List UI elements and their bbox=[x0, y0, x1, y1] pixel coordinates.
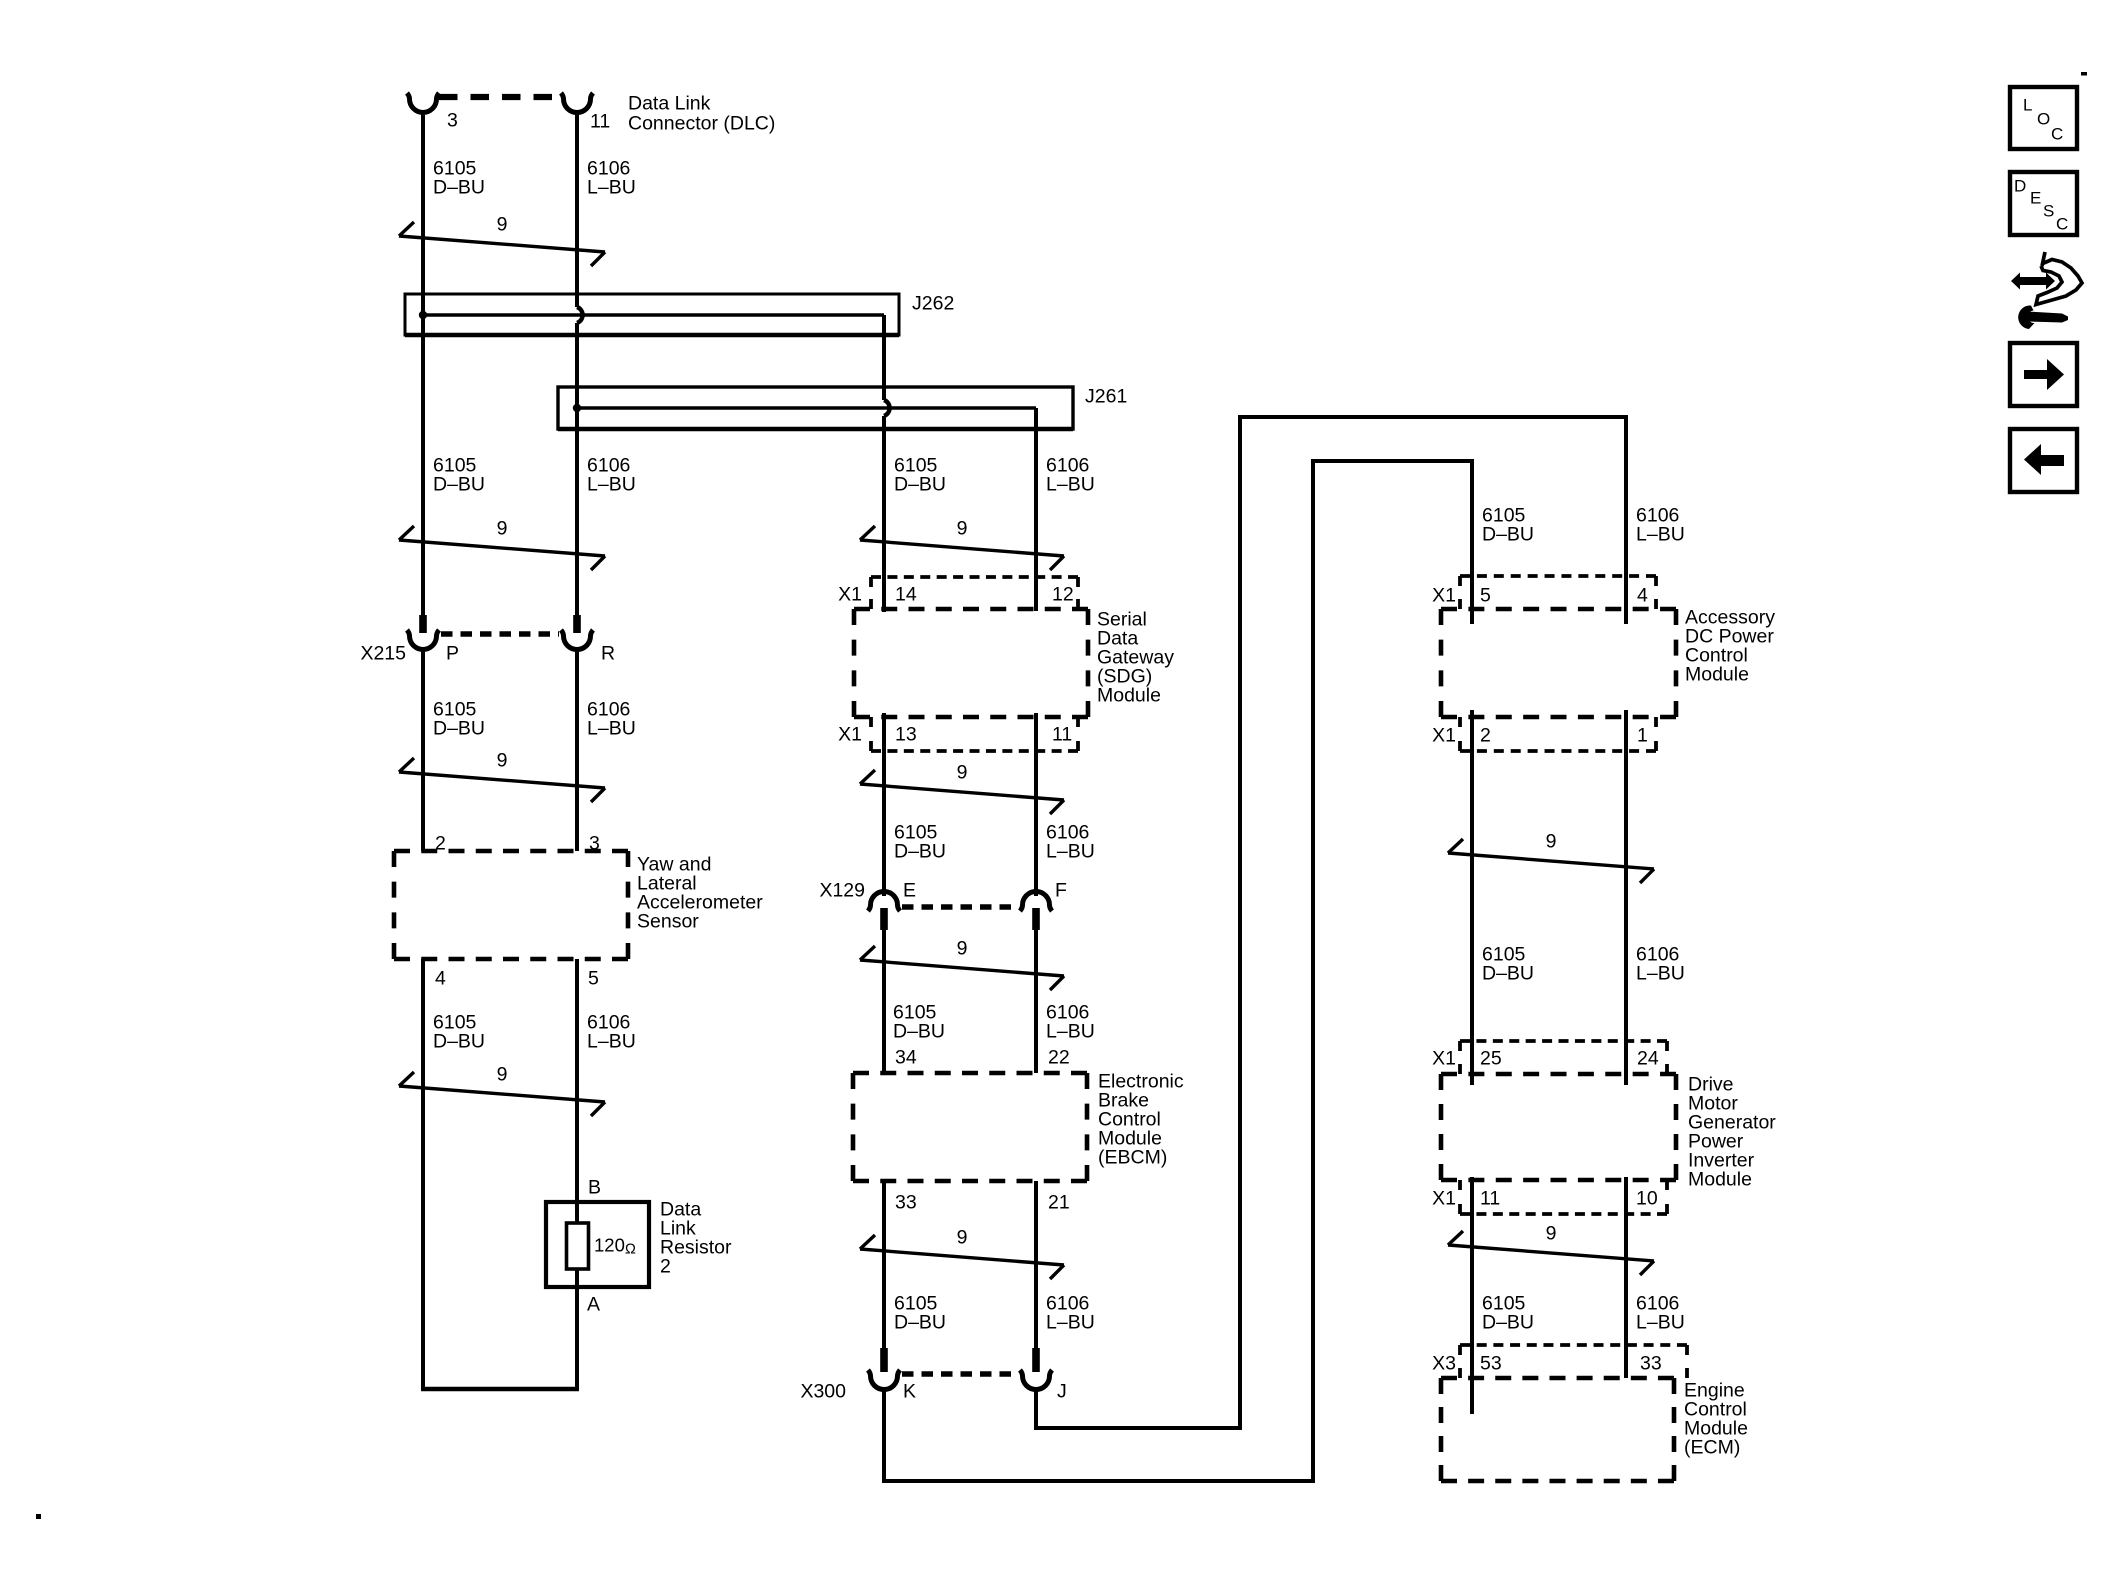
svg-text:24: 24 bbox=[1637, 1047, 1659, 1069]
svg-text:9: 9 bbox=[957, 1226, 968, 1248]
svg-text:B: B bbox=[588, 1176, 601, 1198]
twisted pair symbol (middle column 2) bbox=[860, 770, 1064, 814]
svg-text:9: 9 bbox=[497, 749, 508, 771]
svg-text:9: 9 bbox=[957, 937, 968, 959]
svg-text:9: 9 bbox=[497, 1063, 508, 1085]
net label 6105 D-BU (left, above X215) bbox=[433, 454, 485, 495]
svg-text:1: 1 bbox=[1637, 724, 1648, 746]
svg-text:Sensor: Sensor bbox=[637, 910, 699, 932]
svg-text:L: L bbox=[2023, 95, 2032, 114]
label Engine Control Module (ECM) bbox=[1684, 1379, 1748, 1458]
svg-text:4: 4 bbox=[1637, 584, 1648, 606]
svg-text:33: 33 bbox=[895, 1191, 917, 1213]
svg-text:Module: Module bbox=[1097, 684, 1161, 706]
svg-text:D: D bbox=[2014, 176, 2026, 195]
connector pin box X1 13/11 (SDG bottom) bbox=[871, 717, 1078, 751]
label Yaw and Lateral Accelerometer Sensor bbox=[637, 853, 763, 932]
svg-text:D–BU: D–BU bbox=[433, 176, 485, 198]
net label 6106 L-BU (middle, above SDG) bbox=[1046, 454, 1095, 495]
svg-text:D–BU: D–BU bbox=[894, 473, 946, 495]
connector X300 mating dashed line bbox=[902, 1371, 1018, 1376]
label Electronic Brake Control Module (EBCM) bbox=[1098, 1070, 1184, 1168]
splice pack J261 housing bbox=[558, 387, 1073, 429]
wire J261 internal bus 6106 to middle column bbox=[577, 406, 1036, 410]
connector X129 mating dashed line bbox=[902, 904, 1018, 909]
wire 6105 D-BU from DLC pin 3 to splice J262 bbox=[421, 110, 425, 315]
svg-text:E: E bbox=[903, 879, 916, 901]
wire 6105 D-BU yaw sensor pin 4 down to termination loop bbox=[421, 959, 425, 1389]
wire 6106 L-BU X215 to yaw sensor pin 3 bbox=[575, 648, 579, 851]
twisted pair symbol (middle column 3) bbox=[860, 946, 1064, 990]
net label 6105 D-BU (left, top) bbox=[433, 157, 485, 198]
svg-text:S: S bbox=[2043, 201, 2054, 220]
svg-text:A: A bbox=[587, 1293, 600, 1315]
wire termination loop horizontal 6105 to 6106 bbox=[421, 1387, 579, 1392]
wire 6106 L-BU from J261 to connector X215 bbox=[575, 408, 579, 616]
svg-text:9: 9 bbox=[957, 761, 968, 783]
svg-text:X215: X215 bbox=[360, 642, 406, 664]
wire hop of 6106 over J262 bus bbox=[577, 307, 583, 323]
wire 6106 L-BU DMGPIM pin 10 to ECM pin 33 bbox=[1624, 1177, 1628, 1378]
twisted pair symbol (middle column 4) bbox=[860, 1235, 1064, 1279]
net label 6105 D-BU (left, below X215) bbox=[433, 698, 485, 739]
svg-text:(EBCM): (EBCM) bbox=[1098, 1146, 1167, 1168]
wire 6106 from resistor pin A down bbox=[575, 1287, 579, 1389]
svg-text:Ω: Ω bbox=[625, 1241, 636, 1257]
icon shortcut arrow-wrench bbox=[2011, 252, 2082, 329]
svg-text:D–BU: D–BU bbox=[1482, 523, 1534, 545]
net label 6106 L-BU (left, top) bbox=[587, 157, 636, 198]
svg-text:13: 13 bbox=[895, 723, 917, 745]
module Engine Control Module (ECM) dashed box bbox=[1441, 1378, 1674, 1481]
wire 6105 D-BU DMGPIM pin 11 to ECM pin 53 bbox=[1470, 1177, 1474, 1414]
svg-text:11: 11 bbox=[590, 110, 610, 132]
svg-text:R: R bbox=[601, 642, 615, 664]
net label 6105 D-BU (right, above DMGPIM) bbox=[1482, 943, 1534, 984]
svg-text:9: 9 bbox=[1546, 1222, 1557, 1244]
resistor element R 120 ohm bbox=[567, 1202, 589, 1287]
svg-text:9: 9 bbox=[1546, 830, 1557, 852]
wire 6106 middle column vertical from J261 bbox=[1034, 408, 1038, 611]
svg-text:14: 14 bbox=[895, 583, 917, 605]
wire 6106 route X300-J to right column (down, right, up, right) bbox=[1036, 417, 1626, 1428]
twisted pair symbol (right column 2) bbox=[1448, 1231, 1654, 1275]
net label 6105 D-BU (middle, above EBCM) bbox=[893, 1001, 945, 1042]
svg-text:22: 22 bbox=[1048, 1046, 1070, 1068]
svg-text:D–BU: D–BU bbox=[1482, 1311, 1534, 1333]
svg-text:L–BU: L–BU bbox=[1046, 840, 1095, 862]
svg-text:Data Link: Data Link bbox=[628, 92, 711, 114]
svg-text:L–BU: L–BU bbox=[587, 717, 636, 739]
net label 6105 D-BU (left, below yaw sensor) bbox=[433, 1011, 485, 1052]
svg-text:9: 9 bbox=[957, 517, 968, 539]
svg-text:D–BU: D–BU bbox=[433, 1030, 485, 1052]
wire 6106 L-BU SDG pin 11 to connector X129 pin F bbox=[1034, 713, 1038, 896]
svg-text:L–BU: L–BU bbox=[587, 176, 636, 198]
wire 6105 middle column vertical from J262 (with hop over J261 bus) bbox=[884, 315, 890, 612]
svg-text:L–BU: L–BU bbox=[587, 473, 636, 495]
twisted pair symbol (left column 1) bbox=[399, 222, 605, 266]
connector DLC cavity 3 (cup) bbox=[407, 93, 439, 112]
wire 6106 L-BU J262 area to junction J261 bbox=[575, 323, 579, 408]
module Drive Motor Generator Power Inverter Module dashed box bbox=[1441, 1074, 1676, 1180]
svg-text:D–BU: D–BU bbox=[433, 473, 485, 495]
wire 6105 D-BU X129 to EBCM pin 34 bbox=[882, 930, 886, 1073]
icon LOC button bbox=[2010, 87, 2077, 149]
svg-text:C: C bbox=[2056, 214, 2068, 233]
connector pin box X1 2/1 (ADCPM bottom) bbox=[1460, 717, 1656, 751]
label Serial Data Gateway (SDG) Module bbox=[1097, 608, 1174, 706]
net label 6105 D-BU (right, above ADCPM) bbox=[1482, 504, 1534, 545]
wire 6105 D-BU EBCM pin 33 to connector X300 pin K bbox=[882, 1181, 886, 1348]
wire 6106 L-BU from DLC pin 11 (upper segment) bbox=[575, 110, 579, 307]
connector pin box X3 53/33 (ECM top) bbox=[1460, 1345, 1687, 1378]
svg-text:L–BU: L–BU bbox=[1046, 1311, 1095, 1333]
svg-text:120: 120 bbox=[594, 1234, 625, 1255]
wire 6105 D-BU SDG pin 13 to connector X129 pin E bbox=[882, 713, 886, 896]
module Electronic Brake Control Module (EBCM) dashed box bbox=[853, 1073, 1087, 1181]
svg-text:X129: X129 bbox=[819, 879, 865, 901]
svg-text:X3: X3 bbox=[1432, 1352, 1456, 1374]
svg-text:J261: J261 bbox=[1085, 385, 1127, 407]
svg-text:Connector (DLC): Connector (DLC) bbox=[628, 112, 775, 134]
module Accessory DC Power Control Module dashed box bbox=[1441, 609, 1676, 717]
net label 6106 L-BU (right, above DMGPIM) bbox=[1636, 943, 1685, 984]
net label 6105 D-BU (middle, above X129) bbox=[894, 821, 946, 862]
label Drive Motor Generator Power Inverter Module bbox=[1688, 1073, 1776, 1190]
wire 6105 D-BU X215 to yaw sensor pin 2 bbox=[421, 648, 425, 851]
net label 6106 L-BU (left, below yaw sensor) bbox=[587, 1011, 636, 1052]
icon DESC button bbox=[2010, 172, 2077, 235]
svg-text:Module: Module bbox=[1688, 1168, 1752, 1190]
svg-text:2: 2 bbox=[1480, 724, 1491, 746]
svg-text:X1: X1 bbox=[1432, 1187, 1456, 1209]
svg-text:X1: X1 bbox=[1432, 724, 1456, 746]
svg-text:3: 3 bbox=[447, 109, 458, 131]
svg-text:L–BU: L–BU bbox=[1636, 523, 1685, 545]
svg-text:D–BU: D–BU bbox=[433, 717, 485, 739]
wire 6106 L-BU EBCM pin 21 to connector X300 pin J bbox=[1034, 1181, 1038, 1348]
svg-text:9: 9 bbox=[497, 517, 508, 539]
svg-text:O: O bbox=[2037, 109, 2050, 128]
svg-text:J262: J262 bbox=[912, 292, 954, 314]
connector pin box X1 25/24 (DMGPIM top) bbox=[1460, 1041, 1667, 1074]
wire 6105 D-BU from J262 to connector X215 bbox=[421, 315, 425, 616]
twisted pair symbol (left column 3) bbox=[399, 758, 605, 802]
net label 6106 L-BU (left, above X215) bbox=[587, 454, 636, 495]
module Yaw and Lateral Accelerometer Sensor (dashed box) bbox=[394, 851, 628, 959]
svg-text:X1: X1 bbox=[838, 583, 862, 605]
svg-text:P: P bbox=[446, 642, 459, 664]
wire 6105 D-BU ADCPM pin 2 to DMGPIM pin 25 bbox=[1470, 710, 1474, 1085]
wire 6105 route X300-K to right column (down, right, up, right) bbox=[884, 461, 1472, 1481]
label Accessory DC Power Control Module bbox=[1685, 606, 1775, 685]
svg-text:5: 5 bbox=[1480, 584, 1491, 606]
svg-text:K: K bbox=[903, 1380, 916, 1402]
svg-text:X300: X300 bbox=[800, 1380, 846, 1402]
connector X215 mating dashed line bbox=[441, 631, 559, 636]
page artifact dot bottom left bbox=[36, 1514, 41, 1519]
net label 6105 D-BU (middle, above SDG) bbox=[894, 454, 946, 495]
wire J262 internal bus 6105 to middle column bbox=[423, 313, 884, 317]
net label 6106 L-BU (middle, above X300) bbox=[1046, 1292, 1095, 1333]
twisted pair symbol (left column 2) bbox=[399, 526, 605, 570]
connector X129 cavity F (cup and pin) bbox=[1020, 892, 1052, 930]
wire 6106 L-BU X129 to EBCM pin 22 bbox=[1034, 930, 1038, 1073]
net label 6106 L-BU (left, below X215) bbox=[587, 698, 636, 739]
svg-text:F: F bbox=[1055, 879, 1067, 901]
data link resistor housing box bbox=[546, 1202, 649, 1287]
svg-text:34: 34 bbox=[895, 1046, 917, 1068]
svg-text:11: 11 bbox=[1480, 1187, 1500, 1209]
svg-text:L–BU: L–BU bbox=[1046, 473, 1095, 495]
svg-text:53: 53 bbox=[1480, 1352, 1502, 1374]
connector DLC cavity 11 (cup) bbox=[561, 93, 593, 113]
connector X300 cavity J (pin and cup) bbox=[1020, 1348, 1052, 1390]
net label 6105 D-BU (middle, above X300) bbox=[894, 1292, 946, 1333]
svg-text:21: 21 bbox=[1048, 1191, 1070, 1213]
junction dot on 6105 at J262 bbox=[419, 311, 427, 319]
wire 6106 L-BU yaw sensor pin 5 to data link resistor pin B bbox=[575, 959, 579, 1202]
svg-text:4: 4 bbox=[435, 967, 446, 989]
label Data Link Connector (DLC) bbox=[628, 92, 775, 134]
svg-text:25: 25 bbox=[1480, 1047, 1502, 1069]
svg-text:12: 12 bbox=[1052, 583, 1074, 605]
connector X129 cavity E (cup and pin) bbox=[868, 892, 900, 930]
svg-text:9: 9 bbox=[497, 213, 508, 235]
svg-text:2: 2 bbox=[660, 1255, 671, 1277]
svg-text:X1: X1 bbox=[1432, 584, 1456, 606]
svg-text:L–BU: L–BU bbox=[587, 1030, 636, 1052]
svg-text:L–BU: L–BU bbox=[1046, 1020, 1095, 1042]
svg-text:D–BU: D–BU bbox=[893, 1020, 945, 1042]
svg-text:X1: X1 bbox=[1432, 1047, 1456, 1069]
net label 6106 L-BU (right, above ADCPM) bbox=[1636, 504, 1685, 545]
label Data Link Resistor 2 bbox=[660, 1198, 732, 1277]
svg-text:33: 33 bbox=[1640, 1352, 1662, 1374]
svg-text:(ECM): (ECM) bbox=[1684, 1436, 1740, 1458]
connector X215 cavity R (pin and cup) bbox=[561, 615, 593, 650]
connector X300 cavity K (pin and cup) bbox=[868, 1348, 900, 1390]
net label 6106 L-BU (middle, above EBCM) bbox=[1046, 1001, 1095, 1042]
junction dot on 6106 at J261 bbox=[573, 404, 581, 412]
svg-text:L–BU: L–BU bbox=[1636, 1311, 1685, 1333]
page artifact dot top right bbox=[2081, 72, 2087, 76]
connector pin box X1 14/12 (SDG top) bbox=[871, 577, 1078, 609]
svg-text:D–BU: D–BU bbox=[1482, 962, 1534, 984]
twisted pair symbol (left column 4) bbox=[399, 1072, 605, 1116]
svg-text:D–BU: D–BU bbox=[894, 840, 946, 862]
net label 6105 D-BU (right, above ECM) bbox=[1482, 1292, 1534, 1333]
icon previous arrow button bbox=[2010, 429, 2077, 492]
icon next arrow button bbox=[2010, 343, 2077, 406]
net label 6106 L-BU (right, above ECM) bbox=[1636, 1292, 1685, 1333]
splice pack J262 housing bbox=[405, 294, 899, 335]
module Serial Data Gateway (SDG) dashed box bbox=[854, 609, 1088, 717]
connector pin box X1 11/10 (DMGPIM bottom) bbox=[1460, 1180, 1667, 1214]
connector X215 cavity P (pin and cup) bbox=[407, 615, 439, 649]
svg-text:E: E bbox=[2030, 188, 2041, 207]
svg-text:X1: X1 bbox=[838, 723, 862, 745]
svg-text:D–BU: D–BU bbox=[894, 1311, 946, 1333]
svg-text:11: 11 bbox=[1052, 723, 1072, 745]
svg-text:5: 5 bbox=[588, 967, 599, 989]
svg-text:10: 10 bbox=[1636, 1187, 1658, 1209]
wire 6106 L-BU ADCPM pin 1 to DMGPIM pin 24 bbox=[1624, 710, 1628, 1085]
svg-text:C: C bbox=[2051, 124, 2063, 143]
twisted pair symbol (middle column 1) bbox=[860, 526, 1064, 570]
svg-text:J: J bbox=[1057, 1380, 1067, 1402]
svg-text:Module: Module bbox=[1685, 663, 1749, 685]
connector pin box X1 5/4 (ADCPM top) bbox=[1460, 576, 1656, 609]
svg-text:L–BU: L–BU bbox=[1636, 962, 1685, 984]
net label 6106 L-BU (middle, above X129) bbox=[1046, 821, 1095, 862]
connector DLC mating dashed line bbox=[439, 94, 561, 100]
value label 120 ohm bbox=[594, 1234, 636, 1257]
twisted pair symbol (right column 1) bbox=[1448, 839, 1654, 883]
